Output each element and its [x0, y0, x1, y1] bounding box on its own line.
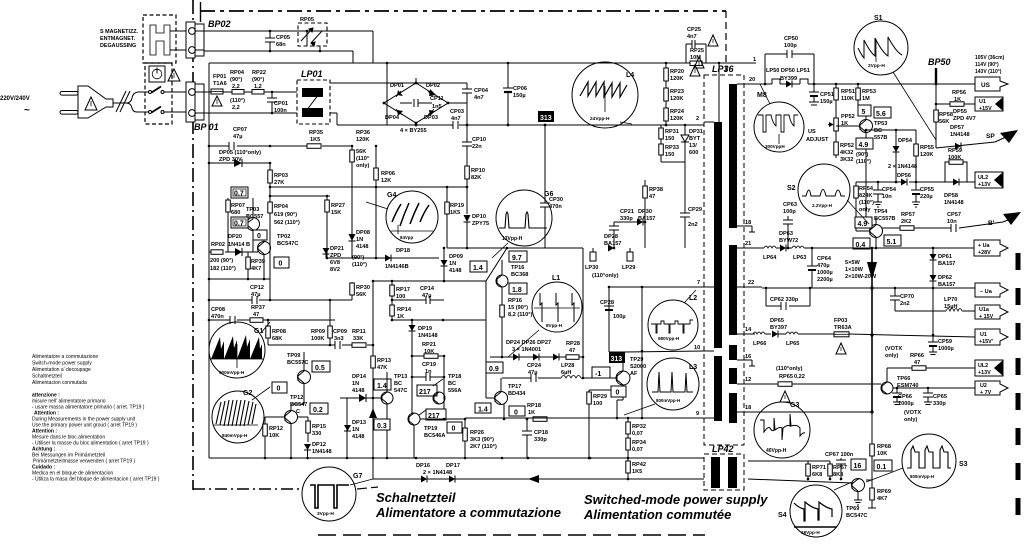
svg-text:only): only) — [356, 163, 369, 169]
CP64 — [811, 248, 813, 266]
svg-text:TP69: TP69 — [846, 506, 859, 512]
bridge rectifier 4xBY255 — [384, 78, 448, 125]
svg-text:800mVpp-H: 800mVpp-H — [910, 474, 934, 479]
svg-text:UL2: UL2 — [978, 175, 988, 181]
SP arrow — [986, 130, 1018, 143]
PP52 1K pot — [834, 118, 839, 131]
waveform scope G3 40Vpp-H — [754, 402, 810, 458]
wire y248 DP08 DP18 row — [351, 250, 353, 258]
wire y248 G6 row — [447, 247, 583, 249]
svg-text:8Vpp-H: 8Vpp-H — [546, 323, 563, 328]
svg-text:47µ: 47µ — [233, 134, 242, 140]
svg-text:BP 01: BP 01 — [194, 122, 219, 132]
capacitor CP51 150u — [813, 84, 815, 92]
svg-text:3K3 (90°): 3K3 (90°) — [470, 437, 494, 443]
svg-text:100K: 100K — [311, 336, 324, 342]
svg-text:0: 0 — [514, 410, 518, 417]
svg-text:TP66: TP66 — [897, 376, 910, 382]
svg-text:10K: 10K — [877, 451, 887, 457]
capacitor CP10 22n — [466, 125, 468, 142]
CP18 330p — [526, 419, 528, 431]
output flag UL2 +13V — [975, 172, 1003, 188]
pin 14 — [737, 333, 755, 335]
output flag US — [975, 77, 1008, 91]
svg-text:6µH: 6µH — [561, 370, 571, 376]
svg-text:15K: 15K — [331, 210, 341, 216]
left border vertical — [208, 63, 210, 458]
svg-text:CP04: CP04 — [474, 88, 489, 94]
svg-text:CP10: CP10 — [472, 137, 486, 143]
svg-text:LP30: LP30 — [585, 265, 598, 271]
svg-text:0.7: 0.7 — [234, 191, 244, 198]
svg-text:100: 100 — [396, 294, 405, 300]
svg-text:0,07: 0,07 — [632, 431, 643, 437]
svg-text:143V (110°): 143V (110°) — [975, 69, 1002, 75]
svg-text:4.9: 4.9 — [858, 221, 868, 228]
svg-text:120K: 120K — [670, 116, 683, 122]
measure box 5 — [858, 105, 871, 116]
svg-text:330p: 330p — [534, 437, 547, 443]
RP03 27K — [269, 163, 271, 300]
pin 21 — [737, 247, 762, 249]
svg-text:CP65: CP65 — [933, 394, 947, 400]
transistor TP69 BC547C — [852, 479, 865, 492]
svg-text:680: 680 — [231, 210, 240, 216]
svg-text:– Ua: – Ua — [980, 289, 993, 295]
svg-text:DP28: DP28 — [604, 234, 618, 240]
svg-text:800mVpp-H: 800mVpp-H — [656, 398, 680, 403]
svg-text:0.9: 0.9 — [489, 366, 499, 373]
degaussing text — [100, 29, 139, 49]
svg-text:CP19: CP19 — [422, 362, 436, 368]
RP07 680 — [227, 198, 229, 252]
svg-text:ZPY75: ZPY75 — [472, 221, 489, 227]
svg-text:DP58: DP58 — [944, 193, 958, 199]
resistor RP25 10M in series — [690, 61, 702, 66]
warning triangle — [690, 65, 700, 76]
measure box 1.4 — [374, 379, 391, 390]
RP56 1K wire to U1 — [936, 103, 950, 105]
svg-text:4 × BY255: 4 × BY255 — [400, 128, 427, 134]
svg-text:105V (36cm): 105V (36cm) — [975, 55, 1005, 61]
svg-text:RP56: RP56 — [952, 90, 966, 96]
warning triangle — [708, 35, 718, 46]
svg-text:120K: 120K — [670, 96, 683, 102]
svg-text:(90°): (90°) — [352, 255, 364, 261]
wire bridge right — [448, 102, 467, 104]
waveform scope G4 84Vpp — [366, 191, 438, 243]
svg-text:RP19: RP19 — [450, 203, 464, 209]
svg-text:RP58: RP58 — [939, 112, 953, 118]
svg-text:82K: 82K — [471, 175, 481, 181]
svg-text:2 × 1N4148: 2 × 1N4148 — [423, 470, 452, 476]
svg-text:TP18: TP18 — [448, 374, 461, 380]
RP71 6K8 RP67 8K8 CP67 — [748, 460, 830, 462]
svg-text:14: 14 — [745, 327, 752, 333]
svg-text:TP17: TP17 — [508, 384, 521, 390]
svg-text:RP42: RP42 — [632, 462, 646, 468]
CP21 330p — [613, 222, 615, 226]
svg-text:FP03: FP03 — [834, 318, 847, 324]
svg-text:150: 150 — [665, 152, 674, 158]
svg-text:RP20: RP20 — [670, 69, 684, 75]
RP15 330 DP12 — [307, 417, 309, 442]
svg-text:BA157: BA157 — [938, 282, 955, 288]
resistors RP31 RP33 — [660, 125, 662, 162]
capacitor CP01 100n — [271, 92, 273, 98]
measure box 0.5 — [312, 361, 330, 372]
svg-text:RP53: RP53 — [862, 89, 876, 95]
measure box 0.1 — [874, 460, 892, 471]
transistor TP16 BC368 — [496, 275, 508, 287]
capacitor CP25 — [686, 40, 706, 63]
svg-text:CP66: CP66 — [898, 394, 912, 400]
svg-text:RP04: RP04 — [274, 204, 289, 210]
svg-text:1K: 1K — [397, 314, 404, 320]
svg-text:1K: 1K — [528, 410, 535, 416]
output flag U1a +15V — [975, 305, 1008, 320]
svg-text:BC557C: BC557C — [287, 360, 308, 366]
wire y279 — [209, 278, 270, 280]
svg-text:RP39: RP39 — [251, 259, 265, 265]
CP70 2n2 — [894, 288, 896, 296]
wire y146 with CP07 RP35 — [209, 145, 229, 147]
svg-text:Alimentatore a commutazione: Alimentatore a commutazione — [375, 505, 561, 520]
svg-text:330p: 330p — [620, 216, 633, 222]
power button icon — [149, 66, 165, 82]
svg-text:0: 0 — [277, 386, 281, 393]
svg-text:47: 47 — [914, 360, 920, 366]
svg-text:DP54: DP54 — [898, 138, 913, 144]
svg-text:CP55: CP55 — [920, 187, 934, 193]
zener DP13 — [346, 398, 348, 458]
svg-text:- Utiliza la masa del bloque d: - Utiliza la masa del bloque de alimenta… — [32, 477, 160, 483]
svg-text:BC: BC — [448, 381, 456, 387]
svg-text:G4: G4 — [387, 192, 396, 199]
svg-text:BC: BC — [874, 128, 882, 134]
svg-text:18: 18 — [745, 220, 751, 226]
svg-text:10: 10 — [694, 345, 700, 351]
svg-text:RP65: RP65 — [779, 374, 793, 380]
measure box -1 — [592, 367, 610, 378]
svg-text:22: 22 — [748, 280, 754, 286]
svg-text:FP01: FP01 — [213, 74, 226, 80]
diode DP31 BYT 13/600 — [684, 125, 686, 162]
svg-text:DP21: DP21 — [330, 246, 344, 252]
svg-text:BC547C: BC547C — [846, 513, 867, 519]
svg-text:RP27: RP27 — [331, 203, 345, 209]
svg-text:2.2Vpp-H: 2.2Vpp-H — [812, 203, 833, 208]
svg-text:RP14: RP14 — [397, 307, 412, 313]
measure box 0.3 — [374, 419, 390, 430]
svg-text:RP17: RP17 — [396, 287, 410, 293]
svg-text:DP24 DP26 DP27: DP24 DP26 DP27 — [506, 340, 551, 346]
svg-text:RP34: RP34 — [632, 440, 647, 446]
capacitor CP05 — [269, 31, 271, 38]
svg-text:27K: 27K — [274, 180, 284, 186]
svg-text:S3: S3 — [959, 461, 968, 468]
svg-text:CP51: CP51 — [820, 92, 834, 98]
svg-text:DP18: DP18 — [396, 248, 410, 254]
measure box 0 — [611, 386, 626, 397]
svg-text:9.7: 9.7 — [512, 255, 522, 262]
CP59 1000u — [932, 335, 934, 342]
bus wire y187 — [270, 186, 467, 188]
measure box 0 — [253, 230, 267, 240]
waveform scope L3 800mVpp-H — [624, 358, 699, 415]
svg-text:68n: 68n — [276, 42, 286, 48]
vertical x583 — [582, 248, 584, 378]
svg-text:(110°: (110° — [356, 156, 369, 162]
svg-text:21: 21 — [745, 241, 751, 247]
svg-text:TP53: TP53 — [874, 121, 887, 127]
svg-text:1.4: 1.4 — [478, 407, 488, 414]
svg-text:DEGAUSSING: DEGAUSSING — [100, 43, 136, 49]
svg-text:600: 600 — [689, 150, 698, 156]
RP29 100 — [588, 390, 590, 458]
svg-text:LP63: LP63 — [793, 255, 806, 261]
DP54 2x1N4148 — [895, 130, 897, 182]
svg-text:DP08: DP08 — [356, 230, 370, 236]
svg-text:T1A6: T1A6 — [213, 81, 227, 87]
measure box 313 — [609, 352, 625, 363]
svg-text:+ 15V: + 15V — [979, 314, 994, 320]
wire BP02 bottom — [204, 50, 353, 52]
svg-text:182 (110°): 182 (110°) — [210, 266, 236, 272]
RP51 110K — [835, 84, 837, 118]
svg-text:RP04: RP04 — [230, 70, 245, 76]
svg-text:TP16: TP16 — [511, 265, 524, 271]
diode DP01 — [397, 90, 403, 96]
svg-text:TP29: TP29 — [630, 357, 643, 363]
warning triangle RP20 — [694, 57, 704, 68]
svg-text:0.7: 0.7 — [234, 221, 244, 228]
LP36 secondary winding bar — [729, 84, 737, 228]
svg-text:1N414 B: 1N414 B — [228, 242, 250, 248]
svg-text:RP21: RP21 — [422, 342, 436, 348]
wire y412 pin18 — [762, 411, 872, 413]
svg-text:110K: 110K — [841, 96, 854, 102]
svg-text:470n: 470n — [211, 314, 224, 320]
resistor RP27 15K — [326, 196, 328, 258]
svg-text:68K: 68K — [272, 336, 282, 342]
wire y320 TP16 — [485, 281, 487, 320]
svg-text:BC557B: BC557B — [874, 216, 895, 222]
RP26 3K3 2K7 — [464, 419, 466, 458]
svg-text:980Vpp-H: 980Vpp-H — [658, 336, 680, 341]
svg-text:0.2: 0.2 — [313, 407, 323, 414]
waveform scope L2 980Vpp-H — [648, 290, 698, 350]
capacitor CP50 100p loop — [764, 54, 766, 84]
DP30 BA157 — [614, 221, 637, 223]
svg-text:47µ: 47µ — [422, 293, 431, 299]
svg-text:1.4: 1.4 — [377, 383, 387, 390]
svg-text:RP05: RP05 — [300, 17, 314, 23]
wire y311 U1a LP70 — [895, 310, 946, 312]
svg-text:RP11: RP11 — [352, 329, 366, 335]
svg-text:2K7 (110°): 2K7 (110°) — [470, 444, 497, 450]
svg-text:DP56: DP56 — [897, 173, 911, 179]
svg-text:6V8: 6V8 — [330, 260, 340, 266]
wire fuse row — [204, 91, 211, 93]
RP08 68K — [267, 320, 269, 345]
capacitor CP30 470n — [544, 125, 546, 203]
measure box 5.6 — [874, 107, 891, 118]
svg-text:4n7: 4n7 — [451, 116, 461, 122]
svg-text:150: 150 — [665, 136, 674, 142]
RP32 column — [627, 418, 629, 479]
svg-text:4K7: 4K7 — [251, 266, 261, 272]
capacitor CP06 150u — [507, 63, 509, 88]
svg-text:1×10W: 1×10W — [845, 267, 864, 273]
svg-text:100µ: 100µ — [613, 314, 626, 320]
svg-text:4148: 4148 — [352, 388, 364, 394]
CP28 100u — [608, 287, 610, 352]
capacitor CP11 1n5 — [400, 102, 412, 104]
RP18 1K on wire — [533, 417, 547, 422]
arrow up solid — [372, 398, 374, 458]
svg-text:~: ~ — [24, 105, 30, 116]
resistor RP38 47 — [644, 180, 646, 248]
svg-text:100p: 100p — [784, 43, 797, 49]
measure box 1.8 — [509, 283, 527, 294]
svg-text:BA157: BA157 — [638, 216, 655, 222]
resistor chain RP20 RP23 RP24 — [665, 63, 667, 125]
RP16 — [500, 305, 505, 317]
svg-text:150µ: 150µ — [820, 99, 833, 105]
waveform scope G6 13Vpp-H — [492, 190, 553, 258]
svg-text:CP67 100n: CP67 100n — [825, 452, 854, 458]
svg-text:LP66: LP66 — [753, 341, 766, 347]
svg-text:TP09: TP09 — [287, 353, 300, 359]
svg-text:8K8: 8K8 — [833, 472, 843, 478]
svg-text:5: 5 — [862, 109, 866, 116]
svg-text:DP10: DP10 — [472, 214, 486, 220]
CP66 CP65 — [889, 387, 891, 389]
svg-text:BP02: BP02 — [208, 19, 231, 29]
svg-text:RP25: RP25 — [690, 48, 704, 54]
svg-text:RP23: RP23 — [670, 89, 684, 95]
svg-text:SP: SP — [986, 133, 995, 140]
RP53 1M — [857, 84, 859, 110]
svg-text:DP57: DP57 — [950, 125, 964, 131]
mains break marks — [116, 91, 126, 112]
svg-text:824K: 824K — [859, 193, 872, 199]
svg-text:2,2: 2,2 — [232, 105, 240, 111]
svg-text:217: 217 — [419, 389, 431, 396]
pin 20 — [737, 83, 760, 85]
UL2 wire y182 — [856, 181, 901, 183]
svg-text:BY399: BY399 — [780, 76, 797, 82]
svg-text:556A: 556A — [448, 388, 461, 394]
svg-text:CP08: CP08 — [211, 307, 225, 313]
svg-text:G3: G3 — [790, 402, 799, 409]
svg-text:DP16: DP16 — [416, 463, 430, 469]
RP39 4K7 — [247, 252, 249, 279]
svg-text:S2: S2 — [787, 185, 796, 192]
svg-text:CP54: CP54 — [882, 187, 897, 193]
svg-text:4n7: 4n7 — [474, 95, 484, 101]
svg-text:RP09: RP09 — [311, 329, 325, 335]
svg-text:RP35: RP35 — [309, 130, 323, 136]
zener DP05 — [209, 162, 270, 164]
svg-text:G6: G6 — [544, 191, 553, 198]
measure box 4.9 — [856, 138, 873, 149]
313 measurement box — [538, 111, 554, 122]
svg-text:ZPD: ZPD — [330, 253, 341, 259]
svg-text:CP28: CP28 — [600, 300, 614, 306]
svg-text:DP63: DP63 — [779, 231, 793, 237]
measure box 0 — [447, 422, 462, 433]
svg-text:5×5W: 5×5W — [845, 260, 860, 266]
posistor symbol — [150, 25, 170, 55]
svg-text:16: 16 — [854, 463, 862, 470]
RP30 56K — [351, 282, 353, 300]
svg-text:DP55: DP55 — [953, 109, 967, 115]
svg-text:DP02: DP02 — [426, 83, 440, 89]
wire TP19 collector — [420, 418, 465, 420]
svg-text:47K: 47K — [377, 365, 387, 371]
svg-text:10n: 10n — [882, 194, 892, 200]
svg-text:1N4148: 1N4148 — [418, 333, 438, 339]
svg-text:CP21: CP21 — [620, 209, 634, 215]
svg-text:Schalnetzteil: Schalnetzteil — [376, 490, 456, 505]
svg-text:2n2: 2n2 — [688, 222, 698, 228]
svg-text:ADJUST: ADJUST — [806, 137, 829, 143]
svg-text:RP31: RP31 — [665, 129, 679, 135]
svg-text:3Vpp-H: 3Vpp-H — [317, 511, 334, 517]
svg-text:LP36: LP36 — [712, 64, 735, 74]
svg-text:only: only — [859, 207, 871, 213]
svg-text:562 (110°): 562 (110°) — [274, 220, 300, 226]
svg-text:1000µ: 1000µ — [938, 346, 954, 352]
measure box 1.4 — [475, 403, 491, 413]
svg-text:G7: G7 — [353, 473, 362, 480]
svg-text:1N: 1N — [356, 237, 363, 243]
measure box 0.9 — [486, 362, 503, 373]
svg-text:+ Ua: + Ua — [978, 243, 991, 249]
svg-text:100: 100 — [593, 401, 602, 407]
svg-text:US: US — [981, 82, 991, 89]
CP14 47u series on wire — [392, 299, 426, 301]
output flag U2 +7V — [975, 381, 1008, 396]
svg-text:CP64: CP64 — [817, 256, 832, 262]
vertical link x642 — [641, 287, 643, 418]
svg-text:U1a: U1a — [979, 307, 990, 313]
waveform scope G7 3Vpp-H — [302, 467, 373, 521]
svg-text:Alimentation a' decoupage: Alimentation a' decoupage — [32, 367, 91, 373]
svg-text:18: 18 — [745, 405, 751, 411]
svg-text:47: 47 — [569, 348, 575, 354]
svg-text:L1: L1 — [552, 275, 560, 282]
wire y345 CP09 RP11 — [268, 344, 335, 346]
svg-text:BYW72: BYW72 — [779, 238, 798, 244]
svg-text:24Vpp-H: 24Vpp-H — [590, 116, 610, 122]
wire y287 pin7 — [609, 286, 704, 288]
svg-text:+13V: +13V — [978, 370, 991, 376]
waveform scope G1 900mVpp-H — [209, 322, 270, 378]
svg-text:200 (90°): 200 (90°) — [210, 258, 233, 264]
svg-text:4148: 4148 — [356, 244, 368, 250]
output flag U1 +15V — [975, 97, 1003, 112]
svg-text:RP51: RP51 — [841, 89, 855, 95]
RP13 47K — [372, 281, 374, 398]
svg-text:CP25: CP25 — [687, 27, 701, 33]
pin 10 — [700, 350, 714, 352]
svg-text:4n7: 4n7 — [687, 34, 697, 40]
RP68 column — [871, 412, 873, 444]
wire bridge top to CP04 — [416, 82, 467, 84]
